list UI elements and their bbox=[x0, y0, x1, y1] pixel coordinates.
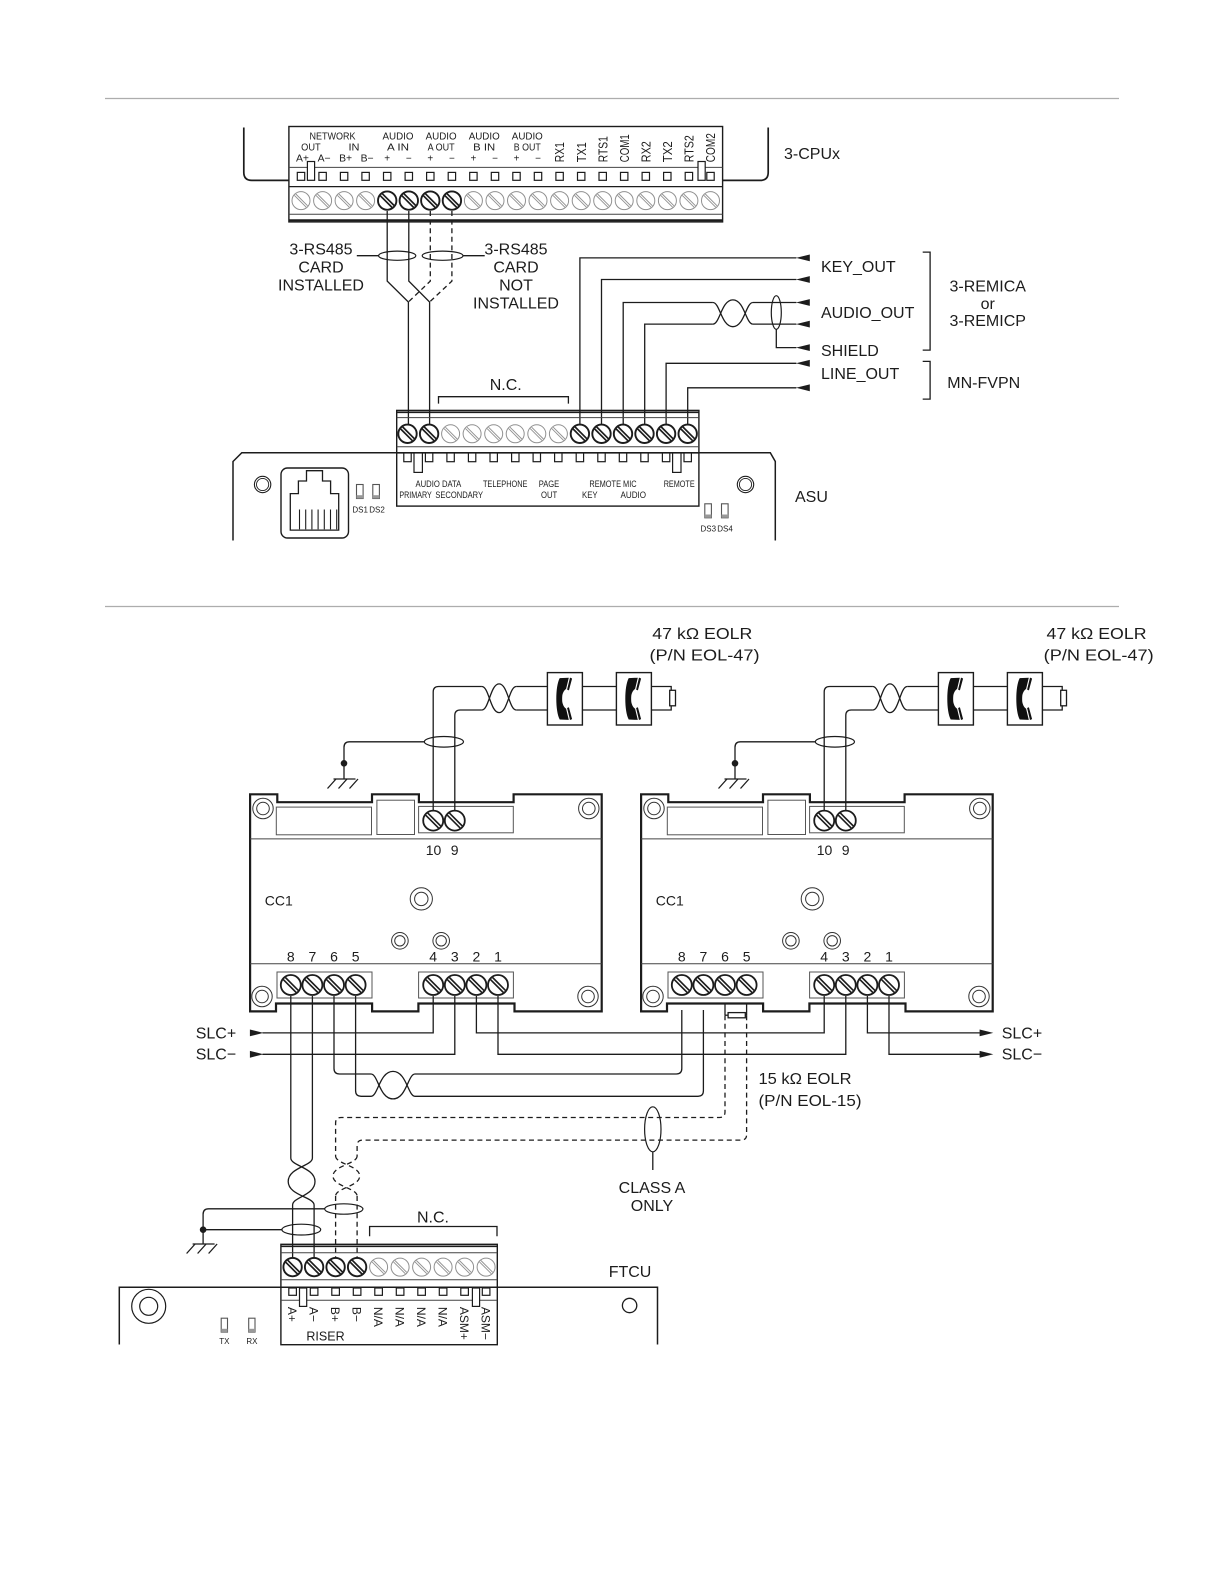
FTCU ground wire upper bbox=[203, 1209, 325, 1244]
svg-text:RISER: RISER bbox=[306, 1330, 344, 1344]
CC1 right top small rect bbox=[768, 800, 806, 834]
telephone EOL 1 (left) bbox=[547, 673, 582, 725]
EOL plug (left) bbox=[651, 687, 671, 711]
svg-text:AUDIO: AUDIO bbox=[512, 131, 543, 142]
LED DS4 bbox=[722, 504, 729, 518]
svg-text:DS4: DS4 bbox=[717, 525, 733, 534]
svg-text:5: 5 bbox=[743, 949, 751, 965]
svg-text:B OUT: B OUT bbox=[514, 142, 541, 153]
3-CPUx terminal block outline bbox=[289, 127, 723, 222]
shield ellipse on AUDIO_OUT pair bbox=[771, 296, 781, 330]
ground junction dot (left) bbox=[341, 760, 348, 767]
CC1 right screw terminals 8 7 6 5 bbox=[672, 975, 692, 995]
shield ellipse on vertical pair (right) bbox=[815, 737, 854, 748]
svg-text:4: 4 bbox=[820, 949, 828, 965]
svg-text:RX1: RX1 bbox=[553, 142, 567, 162]
wire SLC+ in to CC1 left terminal 4 bbox=[263, 996, 434, 1033]
wires between telephone boxes (right) bbox=[973, 686, 1007, 688]
CC1 module (right) outline bbox=[641, 794, 993, 1011]
svg-text:NOT: NOT bbox=[499, 277, 533, 294]
wire SLC- in to CC1 left terminal 3 bbox=[263, 996, 455, 1054]
LED DS2 bbox=[373, 485, 380, 499]
wire ASU 11 AUDIO_OUT + with twist bbox=[623, 303, 713, 427]
wire CC1 left terminal 9 to telephones bbox=[455, 710, 482, 812]
ground branch wire (left) bbox=[344, 742, 424, 779]
svg-text:FTCU: FTCU bbox=[609, 1264, 652, 1281]
svg-text:A+: A+ bbox=[285, 1307, 299, 1322]
svg-text:+: + bbox=[384, 154, 390, 165]
svg-text:(P/N EOL-47): (P/N EOL-47) bbox=[650, 648, 760, 665]
svg-text:B+: B+ bbox=[328, 1307, 342, 1322]
wire ASU 12 AUDIO_OUT - with twist bbox=[645, 324, 713, 426]
wire CC1 left 7 to FTCU A- bbox=[311, 996, 313, 1158]
shield ellipse solid pair bbox=[282, 1224, 321, 1235]
ASU panel outline bbox=[233, 453, 775, 541]
CC1 right bottom terminal rect 4-1 bbox=[810, 972, 905, 998]
ASU mounting hole right bbox=[737, 476, 753, 492]
svg-text:RX2: RX2 bbox=[639, 141, 653, 162]
svg-text:+: + bbox=[427, 154, 433, 165]
svg-text:−: − bbox=[535, 154, 541, 165]
CC1 left screw terminals 10 9 bbox=[423, 811, 443, 831]
svg-text:COM1: COM1 bbox=[618, 134, 632, 162]
wire stubs into FTCU screws bbox=[292, 1260, 294, 1267]
svg-text:7: 7 bbox=[700, 949, 708, 965]
svg-text:PRIMARY: PRIMARY bbox=[399, 490, 431, 500]
15k EOLR resistor bbox=[724, 1004, 726, 1015]
svg-text:SLC+: SLC+ bbox=[1002, 1025, 1042, 1042]
svg-text:KEY_OUT: KEY_OUT bbox=[821, 259, 896, 276]
leader line right label bbox=[463, 255, 485, 257]
svg-text:or: or bbox=[981, 296, 996, 313]
svg-text:CLASS A: CLASS A bbox=[619, 1180, 686, 1197]
cable tie ellipse (installed pair) bbox=[379, 251, 416, 260]
wire CC1 right terminal 9 to telephones bbox=[846, 710, 873, 812]
svg-text:TELEPHONE: TELEPHONE bbox=[483, 479, 528, 489]
shield drain wire bbox=[776, 329, 796, 347]
svg-text:IN: IN bbox=[349, 142, 360, 153]
svg-text:2: 2 bbox=[864, 949, 872, 965]
svg-text:INSTALLED: INSTALLED bbox=[278, 277, 364, 294]
N.C. bracket (FTCU) bbox=[370, 1227, 497, 1237]
wires between telephone boxes (left) bbox=[582, 686, 616, 688]
twisted pair to telephones (left) bbox=[482, 687, 516, 713]
3-CPUx screw terminals row bbox=[292, 192, 310, 210]
FTCU terminal strip outline bbox=[281, 1244, 497, 1344]
3-CPUx wire-entry squares row bbox=[297, 172, 304, 180]
svg-text:3-REMICP: 3-REMICP bbox=[949, 313, 1025, 330]
FTCU ground dot bbox=[200, 1226, 207, 1233]
CC1 left top terminal rect bbox=[419, 806, 514, 832]
ASU polarization key right bbox=[673, 453, 681, 472]
CC1 right mounting holes bbox=[644, 798, 664, 818]
svg-text:+: + bbox=[470, 154, 476, 165]
svg-text:DS1: DS1 bbox=[352, 506, 368, 515]
svg-text:N.C.: N.C. bbox=[417, 1210, 449, 1227]
svg-text:TX1: TX1 bbox=[575, 142, 589, 162]
N.C. bracket (ASU) bbox=[439, 397, 569, 404]
svg-text:47 kΩ EOLR: 47 kΩ EOLR bbox=[1047, 626, 1147, 643]
svg-text:B+: B+ bbox=[339, 154, 352, 165]
dashed wire CC1 right 6 to FTCU B+ bbox=[336, 1015, 725, 1156]
FTCU chassis ground bbox=[187, 1244, 218, 1254]
svg-text:SHIELD: SHIELD bbox=[821, 343, 879, 360]
shield ellipse on class A pair bbox=[645, 1107, 661, 1152]
svg-text:ASM−: ASM− bbox=[479, 1307, 493, 1340]
svg-text:A OUT: A OUT bbox=[428, 142, 455, 153]
ASU RJ45 jack bbox=[281, 468, 349, 538]
dashed wire CC1 right 5 to FTCU B- bbox=[357, 1015, 746, 1156]
svg-text:B−: B− bbox=[361, 154, 374, 165]
svg-text:N/A: N/A bbox=[436, 1307, 450, 1327]
wire ASU 14 LINE_OUT return bbox=[688, 388, 797, 426]
wire ASU 10 bbox=[602, 280, 797, 427]
svg-text:3-RS485: 3-RS485 bbox=[484, 241, 547, 258]
CC1 left top small rect bbox=[377, 800, 415, 834]
CC1 right top blank rect bbox=[667, 807, 762, 835]
RJ45 pins bbox=[299, 510, 301, 530]
wire CC1 left 1 to CC1 right 3 bbox=[498, 996, 846, 1054]
CC1 left bottom terminal rect 8-5 bbox=[277, 972, 372, 998]
svg-text:−: − bbox=[492, 154, 498, 165]
svg-text:B−: B− bbox=[350, 1307, 364, 1322]
svg-text:−: − bbox=[406, 154, 412, 165]
chassis ground (left) bbox=[328, 779, 359, 789]
wire AUDIO A OUT + (dashed) bbox=[408, 211, 430, 302]
svg-text:SLC+: SLC+ bbox=[196, 1025, 236, 1042]
bracket 3-REMICA bbox=[923, 252, 930, 350]
svg-text:N.C.: N.C. bbox=[490, 377, 522, 394]
svg-text:PAGE: PAGE bbox=[539, 479, 560, 489]
wire ASU 9 KEY_OUT bbox=[580, 258, 797, 426]
wire AUDIO A IN + (solid) bbox=[387, 211, 408, 426]
ASU mounting hole left bbox=[254, 476, 270, 492]
ASU terminal strip outline bbox=[397, 410, 699, 506]
telephone EOL 1 (right) bbox=[938, 673, 973, 725]
svg-text:4: 4 bbox=[429, 949, 437, 965]
svg-text:N/A: N/A bbox=[414, 1307, 428, 1327]
ASU panel edge through strip bbox=[397, 452, 699, 454]
svg-text:NETWORK: NETWORK bbox=[310, 131, 356, 142]
ASU wire-entry squares bbox=[404, 453, 411, 462]
CC1 right screw terminals 4 3 2 1 bbox=[814, 975, 834, 995]
svg-text:N/A: N/A bbox=[393, 1307, 407, 1327]
CC1 left top blank rect bbox=[276, 807, 371, 835]
svg-text:ASM+: ASM+ bbox=[457, 1307, 471, 1340]
3-CPUx card edge bracket bbox=[244, 128, 289, 181]
svg-text:−: − bbox=[449, 154, 455, 165]
wire CC1 right 1 to SLC- out bbox=[889, 996, 980, 1054]
telephone EOL 2 (left) bbox=[616, 673, 651, 725]
svg-text:SLC−: SLC− bbox=[196, 1047, 236, 1064]
arrow SLC+ right bbox=[980, 1030, 994, 1037]
svg-text:7: 7 bbox=[309, 949, 317, 965]
svg-text:LINE_OUT: LINE_OUT bbox=[821, 366, 899, 383]
svg-text:1: 1 bbox=[494, 949, 502, 965]
ASU screw terminals bbox=[398, 425, 416, 443]
svg-text:DS3: DS3 bbox=[701, 525, 717, 534]
arrow SLC- right bbox=[980, 1051, 994, 1058]
arrow SLC+ left bbox=[250, 1030, 264, 1037]
EOL plug (right) bbox=[1042, 687, 1062, 711]
svg-text:OUT: OUT bbox=[541, 490, 558, 500]
svg-text:ASU: ASU bbox=[795, 489, 828, 506]
wire CC1 left 2 to CC1 right 4 bbox=[476, 996, 824, 1033]
svg-text:CARD: CARD bbox=[493, 259, 538, 276]
wire CC1 left 6 to CC1 right 8 (pair upper) bbox=[334, 996, 371, 1074]
svg-text:2: 2 bbox=[473, 949, 481, 965]
FTCU wire-entry squares bbox=[289, 1288, 297, 1295]
svg-text:1: 1 bbox=[885, 949, 893, 965]
svg-text:B IN: B IN bbox=[473, 142, 495, 153]
svg-text:3-RS485: 3-RS485 bbox=[289, 241, 352, 258]
svg-text:CC1: CC1 bbox=[656, 893, 684, 909]
svg-text:REMOTE MIC: REMOTE MIC bbox=[589, 479, 636, 489]
svg-text:RTS2: RTS2 bbox=[683, 135, 697, 162]
horizontal rule mid bbox=[105, 606, 1119, 608]
telephone EOL 2 (right) bbox=[1007, 673, 1042, 725]
svg-text:3: 3 bbox=[842, 949, 850, 965]
svg-text:AUDIO_OUT: AUDIO_OUT bbox=[821, 305, 915, 322]
wire AUDIO A OUT - (dashed) bbox=[430, 211, 452, 302]
svg-text:SECONDARY: SECONDARY bbox=[435, 490, 483, 500]
svg-text:ONLY: ONLY bbox=[631, 1198, 674, 1215]
svg-text:8: 8 bbox=[287, 949, 295, 965]
chassis ground (right) bbox=[719, 779, 750, 789]
3-CPUx polarization key left bbox=[307, 162, 314, 181]
svg-text:COM2: COM2 bbox=[704, 133, 718, 162]
FTCU polarization key left bbox=[300, 1288, 307, 1306]
svg-text:INSTALLED: INSTALLED bbox=[473, 295, 559, 312]
wire CC1 right terminal 10 to telephones bbox=[824, 687, 873, 813]
arrow SLC- left bbox=[250, 1051, 264, 1058]
arrowheads to remote labels bbox=[796, 255, 810, 262]
FTCU ground wire lower bbox=[203, 1229, 282, 1231]
wire ASU 13 LINE_OUT bbox=[666, 363, 796, 426]
wire CC1 right 2 to SLC+ out bbox=[867, 996, 979, 1033]
ground branch wire (right) bbox=[735, 742, 815, 779]
svg-text:8: 8 bbox=[678, 949, 686, 965]
leader line left label bbox=[357, 255, 379, 257]
svg-text:AUDIO: AUDIO bbox=[621, 490, 647, 500]
FTCU small hole right bbox=[622, 1298, 636, 1312]
wire CC1 left terminal 10 to telephones bbox=[433, 687, 482, 813]
leader to CLASS A label bbox=[652, 1152, 654, 1170]
CC1 module (left) outline bbox=[250, 794, 602, 1011]
svg-text:RX: RX bbox=[246, 1337, 258, 1346]
CC1 right centre standoff bbox=[801, 888, 823, 910]
wire AUDIO A IN - (solid) bbox=[409, 211, 430, 426]
FTCU polarization key right bbox=[472, 1288, 479, 1306]
twisted pair B+/B- (dashed) bbox=[336, 1156, 360, 1196]
LED DS1 bbox=[357, 485, 364, 499]
svg-text:9: 9 bbox=[451, 842, 459, 858]
svg-text:15 kΩ EOLR: 15 kΩ EOLR bbox=[759, 1071, 852, 1088]
svg-text:3-CPUx: 3-CPUx bbox=[784, 146, 840, 163]
svg-text:A−: A− bbox=[307, 1307, 321, 1322]
svg-text:AUDIO: AUDIO bbox=[426, 131, 457, 142]
svg-text:5: 5 bbox=[352, 949, 360, 965]
svg-text:A+: A+ bbox=[296, 154, 309, 165]
svg-text:(P/N EOL-15): (P/N EOL-15) bbox=[759, 1093, 862, 1110]
LED DS3 bbox=[705, 504, 712, 518]
CC1 right top terminal rect bbox=[810, 806, 905, 832]
LED RX bbox=[249, 1318, 255, 1332]
svg-text:KEY: KEY bbox=[582, 490, 598, 500]
shield ellipse dashed pair bbox=[325, 1204, 363, 1214]
CC1 left screw terminals 4 3 2 1 bbox=[423, 975, 443, 995]
svg-text:MN-FVPN: MN-FVPN bbox=[947, 375, 1020, 392]
ASU polarization key left bbox=[414, 453, 422, 472]
svg-text:3: 3 bbox=[451, 949, 459, 965]
svg-text:10: 10 bbox=[426, 842, 442, 858]
svg-text:REMOTE: REMOTE bbox=[664, 479, 695, 489]
svg-text:A−: A− bbox=[318, 154, 331, 165]
svg-text:AUDIO: AUDIO bbox=[383, 131, 414, 142]
svg-text:10: 10 bbox=[817, 842, 833, 858]
LED TX bbox=[221, 1318, 227, 1332]
svg-text:9: 9 bbox=[842, 842, 850, 858]
CC1 left centre standoff bbox=[410, 888, 432, 910]
ground junction dot (right) bbox=[732, 760, 739, 767]
svg-text:CC1: CC1 bbox=[265, 893, 293, 909]
wire CC1 left 8 to FTCU A+ bbox=[290, 996, 292, 1158]
svg-text:6: 6 bbox=[721, 949, 729, 965]
svg-text:AUDIO DATA: AUDIO DATA bbox=[416, 479, 463, 489]
svg-text:(P/N EOL-47): (P/N EOL-47) bbox=[1044, 648, 1154, 665]
svg-text:47 kΩ EOLR: 47 kΩ EOLR bbox=[652, 626, 752, 643]
svg-text:A IN: A IN bbox=[387, 142, 409, 153]
twisted pair to telephones (right) bbox=[873, 687, 907, 713]
bracket MN-FVPN bbox=[923, 361, 930, 399]
twisted pair A+/A- bbox=[291, 1158, 315, 1205]
cable tie ellipse (not-installed pair) bbox=[422, 251, 463, 260]
svg-text:CARD: CARD bbox=[298, 259, 343, 276]
FTCU screw terminals bbox=[283, 1258, 301, 1276]
CC1 left mounting holes bbox=[253, 798, 273, 818]
wire CC1 left 5 to CC1 right 7 (pair lower) bbox=[356, 996, 371, 1096]
3-CPUx polarization key right bbox=[698, 162, 705, 181]
FTCU mounting hole bbox=[132, 1289, 166, 1323]
svg-text:RTS1: RTS1 bbox=[596, 136, 610, 162]
svg-text:N/A: N/A bbox=[371, 1307, 385, 1327]
svg-text:+: + bbox=[514, 154, 520, 165]
shield ellipse on vertical pair (left) bbox=[424, 737, 463, 748]
svg-text:AUDIO: AUDIO bbox=[469, 131, 500, 142]
svg-text:OUT: OUT bbox=[301, 142, 321, 153]
svg-text:SLC−: SLC− bbox=[1002, 1047, 1042, 1064]
CC1 left screw terminals 8 7 6 5 bbox=[281, 975, 301, 995]
svg-text:DS2: DS2 bbox=[369, 506, 385, 515]
CC1 right bottom terminal rect 8-5 bbox=[668, 972, 763, 998]
svg-text:3-REMICA: 3-REMICA bbox=[949, 279, 1026, 296]
FTCU panel outline bbox=[119, 1287, 657, 1344]
CC1 left bottom terminal rect 4-1 bbox=[419, 972, 514, 998]
CC1 right screw terminals 10 9 bbox=[814, 811, 834, 831]
svg-text:TX: TX bbox=[219, 1337, 230, 1346]
horizontal rule top bbox=[105, 98, 1119, 100]
svg-text:6: 6 bbox=[330, 949, 338, 965]
svg-text:TX2: TX2 bbox=[661, 141, 675, 162]
